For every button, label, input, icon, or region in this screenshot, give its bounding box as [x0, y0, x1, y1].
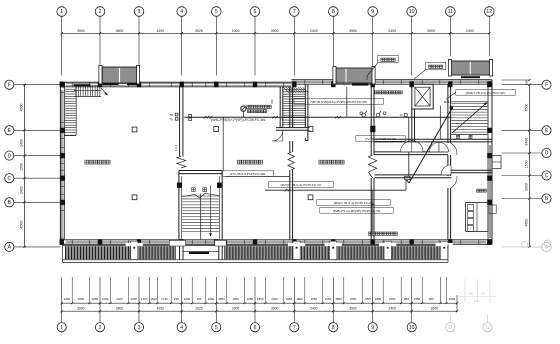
bottom axis major tick lines	[61, 277, 459, 312]
top axis circle 11	[446, 7, 456, 56]
svg-text:1050: 1050	[271, 297, 278, 301]
svg-text:2800: 2800	[116, 307, 124, 311]
svg-text:D: D	[545, 151, 549, 157]
top axis circle 2	[95, 7, 105, 76]
svg-text:6: 6	[254, 9, 257, 15]
faint marks near right edge	[516, 240, 551, 248]
svg-text:M25: M25	[444, 100, 450, 104]
rolling shutter door symbol on wall A	[177, 156, 186, 168]
staircase 1 top-left L-shaped	[64, 84, 108, 135]
svg-text:4292: 4292	[157, 307, 165, 311]
bottom axis circles	[57, 311, 66, 332]
rolling shutter door symbol on wall C	[368, 155, 376, 178]
door arc wall D lower	[451, 176, 457, 188]
svg-text:2400: 2400	[116, 297, 123, 301]
top axis circle 7	[290, 7, 300, 76]
svg-text:5: 5	[215, 325, 218, 331]
wire WE label over stair block	[222, 171, 290, 177]
room label storage	[477, 189, 487, 192]
window edge ticks bottom wall	[72, 240, 479, 245]
bay window block over right staircase	[448, 59, 492, 76]
svg-text:240: 240	[197, 297, 202, 301]
svg-text:900: 900	[481, 292, 486, 296]
svg-text:1850: 1850	[218, 297, 225, 301]
svg-text:E7V-7B-6-6-PC25-FC-WE: E7V-7B-6-6-PC25-FC-WE	[230, 172, 265, 176]
svg-text:7: 7	[293, 325, 296, 331]
top axis circle 9	[368, 7, 378, 76]
svg-text:3600: 3600	[431, 307, 439, 311]
exterior top wall right section with window lines	[292, 80, 493, 84]
exterior right wall	[488, 80, 492, 245]
door arc wall D upper	[451, 143, 457, 155]
elevator shaft side walls down to corridor	[412, 109, 415, 142]
svg-text:(8VB-2*5.4(+9P)/3P)-PC25-FC-VE: (8VB-2*5.4(+9P)/3P)-PC25-FC-VE	[333, 209, 381, 213]
top axis circle 12	[485, 7, 495, 56]
free-standing columns in shops	[132, 127, 313, 200]
wire WC run label near stairwell	[294, 98, 384, 104]
svg-text:4: 4	[180, 325, 183, 331]
svg-text:1700: 1700	[141, 297, 148, 301]
svg-text:1800: 1800	[296, 297, 303, 301]
structural columns on grid	[60, 82, 493, 245]
horizontal wall above storage room	[448, 170, 492, 173]
top axis circle 10	[407, 7, 417, 76]
svg-text:3900: 3900	[349, 307, 357, 311]
white column caps at stair entry	[169, 240, 226, 246]
wire WC label top right	[444, 89, 516, 109]
svg-text:9: 9	[371, 9, 374, 15]
staircase 2 treads	[283, 88, 305, 128]
svg-text:3900: 3900	[77, 29, 85, 33]
right axis circle F	[502, 80, 552, 89]
right grid axis: dimension line	[529, 85, 531, 247]
svg-text:11: 11	[448, 325, 453, 331]
svg-text:1600: 1600	[184, 297, 191, 301]
right axis circle A	[502, 242, 552, 251]
top grid axis: dimension line	[62, 32, 490, 34]
staircase 3 middle-bottom stair block outline	[177, 171, 222, 246]
staircase 4 right section	[451, 102, 488, 135]
svg-text:3: 3	[138, 9, 141, 15]
svg-text:2905: 2905	[232, 307, 240, 311]
svg-text:1050: 1050	[102, 297, 109, 301]
left axis circle B	[5, 198, 61, 207]
svg-text:2400: 2400	[19, 186, 23, 194]
diagonal feeder wire to right staircase	[407, 109, 452, 183]
svg-text:1500: 1500	[524, 160, 528, 168]
vertical feeder wire to office device	[405, 117, 410, 180]
svg-text:C: C	[545, 173, 549, 179]
toilet stall block in right section	[466, 203, 497, 232]
horizontal wall under right staircase	[448, 139, 492, 142]
lintel bars under left bay window	[103, 83, 119, 85]
right axis circle B	[502, 194, 552, 203]
svg-text:3900: 3900	[271, 29, 279, 33]
left axis circle E	[5, 126, 61, 135]
svg-text:F: F	[8, 82, 11, 88]
svg-text:(WB-2*25(5)+2*(9P))-PC25-FC-WL: (WB-2*25(5)+2*(9P))-PC25-FC-WL	[211, 118, 266, 122]
office top wall with double doors	[375, 152, 449, 155]
svg-text:1800: 1800	[375, 297, 382, 301]
svg-text:240: 240	[469, 292, 474, 296]
staircase 4 up direction diagonal	[452, 102, 487, 138]
top axis circle 6	[250, 7, 260, 76]
svg-text:3900: 3900	[271, 307, 279, 311]
svg-text:1050: 1050	[364, 297, 371, 301]
svg-text:2400: 2400	[310, 307, 318, 311]
svg-text:1050: 1050	[92, 297, 99, 301]
svg-text:5: 5	[215, 9, 218, 15]
svg-text:T9: T9	[170, 118, 174, 122]
exterior platform box on right wall	[492, 156, 501, 169]
svg-text:1050: 1050	[247, 297, 254, 301]
bottom axis faint circles 11 12	[446, 315, 455, 332]
faint erased dimension marks bottom right	[459, 279, 496, 303]
svg-text:1050: 1050	[311, 297, 318, 301]
room label shop3	[319, 160, 344, 164]
balcony railing baluster hatch	[66, 246, 440, 259]
left axis circle F	[5, 80, 61, 89]
top axis circle 1	[57, 7, 67, 76]
staircase 2 landing diagonal hatch	[284, 87, 309, 93]
interior wall B between shop2 and shop3 with openings	[290, 87, 293, 240]
svg-text:12: 12	[486, 9, 492, 15]
svg-text:3: 3	[138, 325, 141, 331]
right axis circle C	[502, 171, 552, 180]
lintel bar under right bay window	[461, 76, 480, 78]
office entry door arc	[441, 165, 451, 175]
svg-text:9: 9	[371, 325, 374, 331]
door arc into stairwell 2	[272, 130, 283, 141]
svg-text:6: 6	[254, 325, 257, 331]
strong current shaft label	[367, 55, 398, 80]
svg-text:1850: 1850	[335, 297, 342, 301]
svg-text:1850: 1850	[257, 297, 264, 301]
exterior top wall left section with window lines	[60, 82, 291, 87]
interior wall C between shop3 and office with shutter opening	[371, 87, 374, 240]
svg-text:1500: 1500	[150, 297, 157, 301]
svg-text:1050: 1050	[64, 297, 71, 301]
right wall window lines	[489, 145, 491, 238]
svg-text:3900: 3900	[77, 307, 85, 311]
svg-text:2400: 2400	[388, 29, 396, 33]
svg-text:960: 960	[404, 297, 409, 301]
svg-text:1050: 1050	[449, 297, 456, 301]
double door arcs at office entrance	[401, 141, 412, 152]
window edge ticks top wall	[72, 80, 479, 87]
lighting devices T8 T9 at wall A	[170, 113, 192, 122]
svg-text:11: 11	[448, 9, 453, 15]
entry threshold bar	[183, 252, 219, 254]
interior wall A between shop1 and shop2	[180, 87, 183, 156]
top axis circle 8	[329, 7, 339, 76]
svg-text:1800: 1800	[78, 297, 85, 301]
svg-text:2625: 2625	[195, 307, 203, 311]
svg-text:F: F	[545, 82, 548, 88]
wire VE label box left of elevator	[356, 136, 405, 142]
svg-text:2: 2	[99, 325, 102, 331]
svg-text:(MS)V-7B-S-4)-PC25-FC-VC: (MS)V-7B-S-4)-PC25-FC-VC	[334, 201, 374, 205]
svg-text:2400: 2400	[310, 29, 318, 33]
wire WL1 horizontal run in shop area	[185, 87, 452, 171]
balcony pier posts	[126, 241, 453, 259]
svg-text:1050: 1050	[325, 297, 332, 301]
rolling shutter door symbol on wall B	[288, 152, 294, 170]
svg-text:8: 8	[332, 9, 335, 15]
svg-text:2900: 2900	[474, 299, 480, 303]
svg-text:8: 8	[332, 325, 335, 331]
exterior left wall	[60, 82, 64, 244]
svg-text:1: 1	[60, 325, 63, 331]
feeder annotation text	[247, 105, 272, 108]
wire VC run in shop3	[265, 182, 335, 192]
svg-text:(2M3)Y-7B-3-4)-PC25-FC-WC: (2M3)Y-7B-3-4)-PC25-FC-WC	[465, 91, 506, 95]
svg-text:1730: 1730	[161, 297, 168, 301]
exterior bottom wall with window lines	[60, 240, 492, 245]
staircase 3 up arrow	[209, 185, 211, 237]
svg-text:10: 10	[409, 9, 415, 15]
left axis circle D	[5, 151, 61, 160]
junction label T3 on wire	[399, 113, 407, 117]
svg-text:2300: 2300	[524, 183, 528, 191]
room label shop1	[85, 160, 110, 164]
top axis circle 3	[134, 7, 144, 76]
staircase 3 break line	[182, 194, 219, 199]
elevator shaft	[412, 84, 433, 109]
lintel bar under middle bay window	[352, 83, 369, 85]
svg-text:12: 12	[485, 325, 491, 331]
svg-text:1: 1	[60, 9, 63, 15]
corridor wall right of elevator	[412, 139, 448, 142]
right axis circle E	[502, 126, 552, 135]
svg-text:2400: 2400	[524, 138, 528, 146]
svg-text:1050: 1050	[350, 297, 357, 301]
top axis circle 4	[177, 7, 187, 76]
svg-text:(2M3)V-7B-S-4)-PC25-FC-VC: (2M3)V-7B-S-4)-PC25-FC-VC	[281, 183, 323, 187]
svg-text:2400: 2400	[19, 139, 23, 147]
right axis extra tick 800	[502, 79, 530, 81]
staircase 2 stairwell walls	[276, 84, 310, 140]
svg-text:2400: 2400	[466, 29, 474, 33]
svg-text:4292: 4292	[156, 29, 164, 33]
svg-text:1050: 1050	[286, 297, 293, 301]
svg-text:1050: 1050	[232, 297, 239, 301]
bottom axis minor window ticks	[71, 277, 447, 304]
svg-text:4500: 4500	[524, 104, 528, 112]
staircase 3 down and up labels	[192, 188, 196, 192]
svg-text:3900: 3900	[427, 29, 435, 33]
svg-text:T8: T8	[170, 113, 174, 117]
svg-text:D: D	[7, 153, 11, 159]
svg-text:240: 240	[174, 297, 179, 301]
svg-text:800: 800	[524, 79, 528, 84]
svg-text:7: 7	[293, 9, 296, 15]
office top wall	[375, 175, 452, 178]
weak current shaft label	[414, 62, 446, 79]
bay window block over middle staircase	[333, 66, 375, 84]
stair block entry side walls into balcony	[180, 246, 223, 260]
window edge ticks left wall	[60, 93, 64, 239]
svg-text:2400: 2400	[232, 29, 240, 33]
svg-text:10: 10	[409, 325, 415, 331]
room label shop2	[237, 160, 262, 164]
feeder riser symbol from first floor	[241, 99, 272, 117]
staircase 3 treads and center rail	[182, 194, 219, 241]
wire drop right of doors	[439, 106, 441, 140]
svg-text:4: 4	[180, 9, 183, 15]
right axis circle D	[502, 148, 552, 157]
svg-text:1050: 1050	[389, 297, 396, 301]
svg-text:1500: 1500	[414, 297, 421, 301]
svg-text:2: 2	[99, 9, 102, 15]
left axis circle C	[5, 174, 61, 183]
top axis circle 5	[212, 7, 222, 76]
distribution box on wall C	[370, 126, 375, 132]
svg-text:1:2.4: 1:2.4	[174, 144, 178, 151]
room label office	[369, 232, 398, 235]
meeting room label	[375, 91, 402, 94]
svg-text:4500: 4500	[524, 219, 528, 227]
bay window block over left staircase	[99, 65, 140, 84]
svg-text:2400: 2400	[389, 307, 397, 311]
svg-text:960: 960	[429, 297, 434, 301]
corridor wall left of elevator	[375, 139, 412, 142]
svg-text:7(B7)B-3*25(AL5)+2*(9P)+PC25)-: 7(B7)B-3*25(AL5)+2*(9P)+PC25)-FC-WC	[310, 100, 368, 104]
bottom minor dimension texts	[64, 297, 456, 301]
svg-text:1500: 1500	[19, 163, 23, 171]
switch symbols either side of wall C	[360, 111, 386, 117]
svg-text:2800: 2800	[116, 29, 124, 33]
interior wall D of right service section	[448, 84, 451, 240]
balcony deck edge	[63, 244, 448, 262]
svg-text:C: C	[7, 176, 11, 182]
svg-text:3900: 3900	[349, 29, 357, 33]
svg-text:T3: T3	[399, 113, 403, 117]
office vertical wire with labels	[317, 180, 406, 232]
svg-text:1050: 1050	[208, 297, 215, 301]
svg-text:4500: 4500	[19, 221, 23, 229]
svg-text:1050: 1050	[131, 297, 138, 301]
svg-text:2625: 2625	[195, 29, 203, 33]
left axis circle A	[5, 242, 61, 251]
balcony railing band borders	[63, 246, 448, 260]
bottom dimension lines	[62, 303, 457, 311]
svg-text:4500: 4500	[19, 104, 23, 112]
left grid axis: dimension line	[24, 85, 26, 247]
